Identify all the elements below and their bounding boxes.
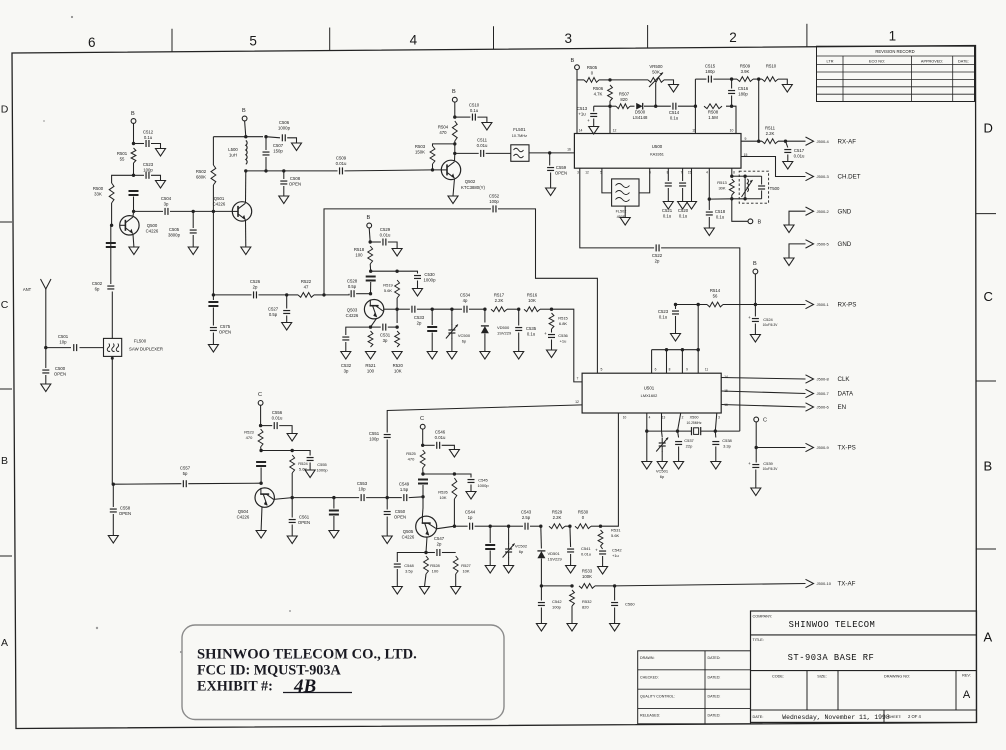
- svg-text:14: 14: [724, 375, 728, 379]
- wire B down to RX-PS: [754, 274, 756, 305]
- svg-text:R530: R530: [578, 510, 589, 515]
- wire VD501 drop: [540, 526, 543, 548]
- ground C523: [156, 181, 166, 189]
- svg-text:6p: 6p: [462, 338, 467, 343]
- supply B RX-PS: [753, 269, 758, 274]
- svg-text:C552: C552: [489, 194, 500, 199]
- capacitor C556: [274, 422, 277, 429]
- wire FL500 down to TX node: [111, 356, 113, 484]
- svg-text:10.25MHz: 10.25MHz: [686, 421, 701, 425]
- node C510 node: [453, 115, 456, 118]
- filter FL502: [612, 179, 639, 206]
- resistor R513: [729, 179, 734, 195]
- node C511 node: [453, 152, 456, 155]
- capacitor C505: [190, 230, 197, 233]
- svg-text:0.1u: 0.1u: [470, 108, 479, 113]
- node C559 node: [548, 151, 551, 154]
- node C560 node: [613, 584, 616, 587]
- svg-text:C532: C532: [341, 363, 352, 368]
- svg-text:GND: GND: [838, 241, 852, 248]
- svg-text:56: 56: [713, 293, 718, 298]
- svg-text:0.01u: 0.01u: [477, 143, 488, 148]
- wire R503 top link: [433, 144, 455, 146]
- wire R506 down: [609, 101, 611, 134]
- capacitor C523 rxps: [672, 311, 679, 314]
- wire R511 to arrow: [778, 140, 806, 142]
- svg-text:2 OF 4: 2 OF 4: [908, 714, 921, 719]
- svg-text:B: B: [984, 459, 993, 474]
- svg-text:R524: R524: [298, 461, 308, 466]
- supply B Q503: [367, 223, 372, 228]
- wire pin12 to C551 riser: [387, 405, 582, 433]
- svg-text:9: 9: [686, 368, 688, 372]
- ground C532: [341, 352, 351, 360]
- varactor VD501: [537, 550, 545, 552]
- capacitor C507: [263, 152, 270, 155]
- wire C504 to C505 node: [170, 210, 193, 212]
- wire VC502 drop: [508, 526, 510, 544]
- svg-text:0.1u: 0.1u: [670, 115, 679, 120]
- svg-text:C542: C542: [612, 548, 622, 553]
- svg-text:J500-1: J500-1: [817, 302, 830, 307]
- capacitor C528: [351, 290, 354, 297]
- wire line to C534: [452, 308, 462, 310]
- svg-text:0.01u: 0.01u: [380, 232, 391, 237]
- svg-text:ST-903A BASE RF: ST-903A BASE RF: [788, 653, 875, 663]
- node RX-PS node: [754, 303, 757, 306]
- svg-text:R528: R528: [430, 563, 440, 568]
- node C516 bottom node: [730, 105, 733, 108]
- capacitor C531: [383, 324, 386, 331]
- svg-text:4: 4: [706, 171, 708, 175]
- wire R507 to D500: [630, 105, 635, 107]
- ground R520: [392, 352, 402, 360]
- svg-text:10uF/6.3V: 10uF/6.3V: [763, 323, 779, 327]
- varicap VC501 trimmer: [659, 443, 666, 446]
- svg-text:OPEN: OPEN: [298, 520, 310, 525]
- wire Q500 collector up: [132, 211, 135, 216]
- wire bottom link: [709, 198, 745, 200]
- svg-text:C530: C530: [424, 272, 435, 277]
- resistor R506: [608, 85, 613, 101]
- svg-text:EN: EN: [838, 404, 847, 411]
- node fer2 node: [332, 496, 335, 499]
- svg-text:10K: 10K: [394, 368, 402, 373]
- svg-text:C521: C521: [662, 208, 673, 213]
- svg-text:R506: R506: [593, 86, 604, 91]
- svg-text:100p: 100p: [552, 605, 562, 610]
- ferrite bead Q505: [418, 480, 428, 484]
- wire Q504 emitter: [260, 507, 263, 531]
- svg-text:1uH: 1uH: [229, 152, 237, 157]
- wire fer to base: [422, 485, 424, 497]
- resistor R503: [430, 146, 435, 164]
- ground J500-2: [784, 225, 794, 233]
- svg-text:DATED:: DATED:: [708, 695, 721, 699]
- svg-text:1SV229: 1SV229: [497, 331, 512, 336]
- wire top link: [732, 175, 745, 177]
- wire C500 to gnd: [45, 375, 47, 384]
- svg-text:C: C: [1, 299, 9, 311]
- svg-text:OPEN: OPEN: [289, 181, 301, 186]
- svg-text:R510: R510: [766, 64, 777, 69]
- wire C531 right: [388, 326, 397, 328]
- wire xtal line right: [701, 430, 740, 432]
- svg-text:1.5p: 1.5p: [400, 487, 409, 492]
- resistor R523: [258, 429, 263, 447]
- svg-text:3: 3: [565, 31, 573, 46]
- ground VD500: [480, 352, 490, 360]
- wire line to VC502: [490, 525, 508, 527]
- wire VC501 gnd lead: [661, 451, 663, 462]
- svg-text:A: A: [1, 637, 8, 649]
- node R513 bottom node: [730, 197, 733, 200]
- ferrite bead near C502: [106, 243, 116, 247]
- svg-text:3800p: 3800p: [168, 232, 181, 237]
- op-amp U501 LMX1602: [582, 373, 721, 413]
- wire C551 down: [386, 440, 388, 498]
- svg-text:C524: C524: [763, 317, 773, 322]
- filter FL500: [104, 338, 122, 356]
- ferrite bead Q503: [366, 277, 376, 281]
- wire R510 to gnd: [778, 79, 787, 84]
- wire R529 to C541 node: [565, 525, 570, 527]
- ground C521: [663, 202, 673, 210]
- svg-text:0.1u: 0.1u: [144, 135, 153, 140]
- svg-text:2.2K: 2.2K: [495, 298, 504, 303]
- node VC500 node: [450, 308, 453, 311]
- wire TX-AF line 1: [541, 585, 572, 587]
- node Q503 top node: [369, 270, 372, 273]
- wire pin15 gnd line: [691, 168, 693, 201]
- svg-text:R509: R509: [740, 64, 751, 69]
- wire RX-PS arrow lead: [755, 304, 805, 306]
- wire FL501 to U500 pin16: [529, 152, 574, 154]
- wire C507 top: [265, 137, 267, 150]
- wire C505 to gnd: [192, 235, 194, 247]
- node C512 node: [132, 142, 135, 145]
- svg-text:C544: C544: [465, 510, 476, 515]
- svg-text:C4226: C4226: [402, 534, 415, 539]
- svg-text:6: 6: [88, 35, 96, 50]
- svg-text:C522: C522: [652, 253, 663, 258]
- svg-text:R500: R500: [93, 186, 104, 191]
- wire C511 lead: [455, 152, 479, 154]
- capacitor C548: [394, 564, 401, 567]
- svg-text:CODE:: CODE:: [772, 675, 784, 679]
- svg-text:DATE:: DATE:: [753, 715, 764, 719]
- svg-text:TITLE:: TITLE:: [753, 638, 764, 642]
- wire C558 drop: [112, 484, 114, 507]
- svg-text:3.5p: 3.5p: [405, 569, 414, 574]
- capacitor C512: [146, 140, 149, 147]
- capacitor C523: [146, 172, 149, 179]
- svg-text:C4226: C4226: [213, 201, 226, 206]
- svg-text:OPEN: OPEN: [555, 170, 567, 175]
- svg-text:Q503: Q503: [347, 308, 358, 313]
- svg-text:B: B: [753, 261, 757, 267]
- capacitor C532: [342, 337, 349, 340]
- wire to supply B: [732, 199, 748, 222]
- wire C509 to Q502 base: [345, 170, 442, 171]
- wire fer3 gnd lead: [489, 551, 491, 566]
- svg-text:3p: 3p: [383, 338, 388, 343]
- svg-text:C4226: C4226: [237, 514, 250, 519]
- ground C512: [156, 149, 166, 157]
- svg-text:X500: X500: [690, 416, 699, 420]
- svg-text:C: C: [420, 416, 424, 422]
- svg-text:C508: C508: [290, 176, 301, 181]
- svg-text:FL501: FL501: [513, 127, 526, 132]
- wire fer drop: [431, 309, 433, 325]
- connector J500-10 TX-AF: [806, 579, 814, 587]
- svg-text:J500-5: J500-5: [817, 242, 830, 247]
- ground C559: [546, 188, 556, 196]
- wire rail to C506: [266, 137, 280, 138]
- connector J500-3 CH.DET: [806, 172, 814, 180]
- svg-text:R520: R520: [393, 363, 404, 368]
- node R502 bottom node: [212, 210, 215, 213]
- node T500 left top: [743, 175, 746, 178]
- ferrite bead VCO: [427, 327, 437, 331]
- wire C532 gnd lead: [345, 342, 347, 352]
- zone tick top 3: [493, 26, 495, 49]
- capacitor C514: [673, 103, 676, 110]
- svg-text:C541: C541: [581, 546, 591, 551]
- svg-text:R531: R531: [611, 528, 621, 533]
- svg-text:1.5M: 1.5M: [708, 115, 718, 120]
- wire C542 drop: [540, 586, 542, 601]
- capacitor C527: [283, 311, 290, 314]
- svg-text:C553: C553: [357, 481, 368, 486]
- ground Q504 emitter: [256, 531, 266, 539]
- wire pin13 drop: [661, 413, 663, 431]
- wire pin4 gnd lead: [646, 431, 648, 461]
- svg-text:DATE:: DATE:: [958, 59, 969, 63]
- inductor L500: [246, 141, 247, 165]
- ground C556: [287, 434, 297, 442]
- wire C512 to gnd: [151, 144, 161, 149]
- ground C510: [482, 123, 492, 131]
- capacitor C544: [470, 523, 473, 530]
- svg-text:+1u: +1u: [578, 111, 586, 116]
- wire R500 to base: [111, 203, 113, 225]
- varactor VD500: [481, 325, 489, 327]
- svg-text:150p: 150p: [273, 148, 283, 153]
- svg-text:C501: C501: [58, 334, 69, 339]
- title block grid: [751, 611, 977, 722]
- svg-text:0.5p: 0.5p: [269, 312, 278, 317]
- svg-text:C509: C509: [336, 156, 347, 161]
- wire B to C512 node: [133, 123, 135, 143]
- capacitor C541: [567, 549, 574, 552]
- svg-text:2.2K: 2.2K: [553, 515, 562, 520]
- wire C518 drop: [708, 199, 710, 210]
- filter FL501: [511, 145, 529, 162]
- svg-text:VC500: VC500: [458, 333, 471, 338]
- svg-text:SIZE:: SIZE:: [817, 675, 827, 679]
- svg-text:C500: C500: [55, 366, 66, 371]
- transistor Q504: [255, 488, 274, 507]
- ground C524: [750, 335, 760, 343]
- svg-text:R504: R504: [438, 125, 449, 130]
- svg-text:C523: C523: [143, 162, 154, 167]
- wire R501 to C523 node: [133, 163, 135, 175]
- wire VC502 gnd lead: [508, 557, 510, 566]
- wire ferrite to collector: [133, 197, 135, 212]
- node Q503 base node: [369, 292, 372, 295]
- capacitor C547: [437, 549, 440, 556]
- ferrite bead Q500 collector: [129, 191, 139, 195]
- ground C546: [449, 450, 459, 458]
- resistor R526: [452, 478, 457, 499]
- svg-text:0.01u: 0.01u: [794, 153, 805, 158]
- zone tick top 4: [647, 25, 649, 48]
- resistor R518: [368, 246, 373, 264]
- resistor R500: [109, 183, 114, 203]
- svg-text:B: B: [1, 455, 8, 467]
- wire R513 bottom: [731, 195, 733, 199]
- svg-text:B: B: [571, 58, 575, 64]
- node R513 top node: [730, 175, 733, 178]
- svg-text:1000p: 1000p: [477, 483, 489, 488]
- varicap VC500 trimmer: [448, 330, 455, 333]
- node C507 bottom node: [264, 169, 267, 172]
- wire Q504 collector line: [274, 498, 293, 500]
- capacitor C553: [361, 494, 364, 501]
- wire ferrite to base: [370, 282, 372, 294]
- node R520 top node: [395, 325, 398, 328]
- wire B down: [369, 228, 370, 242]
- wire mid rail left: [594, 105, 610, 107]
- wire C505 drop: [192, 211, 194, 228]
- wire R517 to C535: [507, 308, 519, 310]
- svg-text:4: 4: [410, 32, 418, 47]
- wire line to C509: [284, 170, 338, 172]
- ground C540: [598, 567, 608, 575]
- resistor R516: [524, 307, 540, 312]
- svg-text:RELEASED:: RELEASED:: [640, 714, 660, 718]
- node riser node: [322, 293, 325, 296]
- wire fer2 gnd lead: [333, 516, 335, 531]
- resistor R507: [616, 104, 630, 109]
- resistor R528: [424, 556, 429, 574]
- svg-text:+: +: [587, 118, 590, 123]
- wire R523 down: [260, 447, 263, 451]
- ground C508: [279, 196, 289, 204]
- wire GND out 2: [789, 244, 806, 258]
- wire R509 to R510: [753, 78, 762, 80]
- svg-text:6p: 6p: [660, 474, 665, 479]
- node C546 node: [421, 444, 424, 447]
- node C516 top node: [730, 77, 733, 80]
- wire C down: [422, 429, 424, 445]
- wire C517 to gnd: [787, 155, 789, 162]
- resistor R517: [491, 307, 507, 312]
- node xtal n1: [645, 429, 648, 432]
- supply C Q505: [420, 424, 425, 429]
- svg-text:R517: R517: [494, 293, 505, 298]
- ground VC502: [504, 566, 514, 574]
- ground R528: [420, 587, 430, 595]
- wire C515 to C516 top: [713, 78, 731, 80]
- svg-text:10p: 10p: [358, 486, 366, 491]
- zone tick top 1: [171, 29, 173, 52]
- svg-text:9: 9: [745, 137, 747, 141]
- svg-text:ECO NO:: ECO NO:: [869, 59, 885, 63]
- svg-text:J500-10: J500-10: [817, 581, 832, 586]
- svg-text:820: 820: [582, 605, 589, 610]
- node xtal n3: [714, 429, 717, 432]
- ground C550: [382, 536, 392, 544]
- wire C539 gnd lead: [755, 470, 757, 489]
- wire emitter left: [346, 327, 371, 335]
- ground C541: [566, 566, 576, 574]
- wire VD500 drop: [484, 309, 486, 322]
- svg-text:10uF/6.3V: 10uF/6.3V: [763, 467, 779, 471]
- ground fer VCO: [427, 352, 437, 360]
- ground C560: [610, 624, 620, 632]
- svg-text:C537: C537: [684, 438, 694, 443]
- wire C527 drop: [286, 295, 288, 309]
- node C556 node: [259, 424, 262, 427]
- svg-text:2: 2: [682, 416, 684, 420]
- svg-text:OPEN: OPEN: [219, 329, 231, 334]
- wire Q501 base tap down: [212, 211, 214, 295]
- node C558 node: [112, 483, 115, 486]
- svg-text:2p: 2p: [437, 541, 442, 546]
- svg-text:100p: 100p: [489, 199, 499, 204]
- wire C508 to gnd: [283, 186, 285, 196]
- wire TX line to pin10: [601, 413, 619, 526]
- svg-text:RX-AF: RX-AF: [838, 138, 857, 145]
- node C529 node: [369, 240, 372, 243]
- svg-text:REVISION RECORD: REVISION RECORD: [875, 49, 914, 54]
- wire C535 drop: [518, 309, 520, 325]
- svg-text:4: 4: [649, 416, 651, 420]
- svg-text:SHINWOO TELECOM CO., LTD.: SHINWOO TELECOM CO., LTD.: [197, 647, 417, 663]
- connector J500-7 DATA: [806, 389, 814, 397]
- svg-text:5p: 5p: [183, 471, 188, 476]
- ground C523 rxps: [671, 334, 681, 342]
- wire VC500 gnd lead: [451, 338, 453, 352]
- svg-text:SHINWOO TELECOM: SHINWOO TELECOM: [789, 620, 876, 630]
- wire Q501 emitter: [245, 220, 247, 247]
- svg-text:OPEN: OPEN: [394, 514, 406, 519]
- svg-text:DATED:: DATED:: [708, 714, 721, 718]
- node TX-AF n1: [540, 584, 543, 587]
- ferrite bead TX2: [485, 545, 495, 549]
- wire C508 drop: [283, 171, 285, 179]
- svg-text:J500-7: J500-7: [817, 391, 830, 396]
- svg-text:0.1u: 0.1u: [527, 331, 536, 336]
- wire C526 to C527 node: [259, 294, 287, 296]
- wire B down: [454, 102, 456, 117]
- capacitor C524 electrolytic: [752, 319, 759, 322]
- wire B to C524: [754, 305, 756, 317]
- svg-text:4.7K: 4.7K: [594, 91, 603, 96]
- transistor Q505: [416, 516, 437, 537]
- wire R524 down: [291, 473, 293, 498]
- wire fer to base: [260, 468, 262, 484]
- svg-text:R519: R519: [383, 283, 393, 288]
- exhibit underline: [283, 692, 352, 694]
- node VD500 node: [483, 308, 486, 311]
- svg-text:C528: C528: [347, 279, 358, 284]
- wire R530 to R531 node: [591, 525, 601, 527]
- svg-text:3: 3: [577, 171, 579, 175]
- svg-text:C555: C555: [317, 462, 327, 467]
